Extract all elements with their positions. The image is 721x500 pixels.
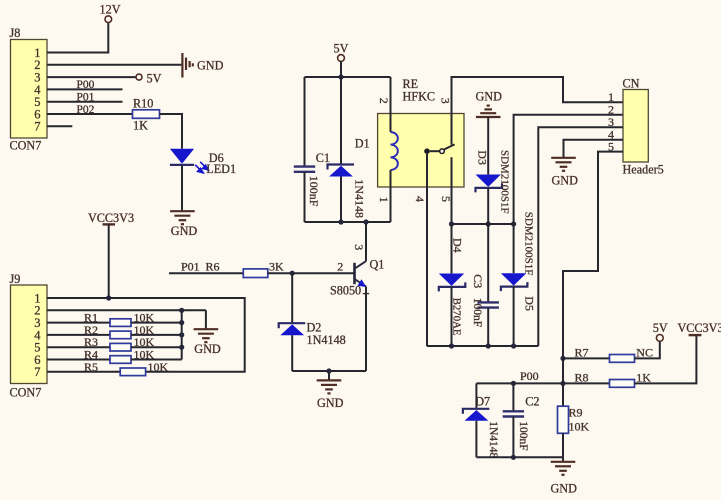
diode D7 [463,409,490,421]
svg-text:R10: R10 [133,96,153,110]
resistor R6 [243,269,267,278]
diode D4 [439,274,466,292]
resistor R7 [610,355,635,363]
svg-text:Q1: Q1 [370,257,385,271]
junction D5 bottom [511,343,516,348]
svg-text:C1: C1 [316,151,330,165]
wire D2 anode down [291,335,293,371]
diode D5 [501,273,528,291]
connector J8 [11,40,48,139]
capacitor C2 [503,411,524,416]
wire vertical to R9 [562,358,564,406]
svg-text:D3: D3 [475,150,489,165]
svg-text:P00: P00 [520,369,539,383]
wire CN pin3 to bottom rail [538,127,623,346]
wire relay pin3 to CN pin1 [452,77,624,145]
resistor R2 [110,331,131,339]
junction pull rail y=347.2 [179,345,184,350]
wire net P01 to R6 [169,272,243,274]
relay switch lever [444,144,454,149]
svg-text:P01: P01 [77,92,95,104]
wire C1 bottom lead [304,172,306,222]
resistor R4 [110,356,131,364]
svg-text:1N4148: 1N4148 [307,333,346,347]
svg-text:P00: P00 [77,79,95,91]
svg-text:J9: J9 [10,272,21,286]
junction D3/C3 [486,221,491,226]
svg-text:3: 3 [352,244,366,250]
S8050 underscore mark [363,293,369,295]
wire J9 pin2 to GND [47,309,206,311]
power port 5V (J8 pin3) [136,74,142,80]
wire rail to C3 [487,224,489,302]
wire bottom wire C1/D1/Q1/relay pin1 [305,221,391,223]
resistor R5 [120,368,145,376]
wire J8 pin2 to GND [47,64,181,66]
wire P00 to D7 [475,383,477,408]
svg-text:R5: R5 [84,360,98,374]
junction R8/R9 [560,381,565,386]
wire J9 to R1 [47,322,110,324]
svg-text:CON7: CON7 [10,139,42,153]
svg-text:R6: R6 [206,260,220,274]
wire GND stem (Q1) [328,371,330,380]
wire net P00 horizontal [476,382,563,384]
wire relay pin2 lead [390,77,392,132]
power port VCC3V3 (left) [103,223,116,225]
svg-text:GND: GND [317,396,344,410]
junction C2 top [511,381,516,386]
wire net stub P00 (J8 pin4) [47,88,123,90]
wire Q1 collector up [365,222,367,261]
ground GND (J9 pin2) [194,329,219,342]
wire C2 top lead [512,383,514,411]
wire 5V stem [340,61,342,77]
wire junction to R7 [563,357,610,359]
svg-text:P01: P01 [181,260,200,274]
resistor R8 [610,380,635,388]
junction relay pin5/D4 [449,221,454,226]
wire net stub P01 (J8 pin5) [47,101,123,103]
wire D1 cathode lead [340,77,342,164]
wire J9 to R4 [47,359,110,361]
svg-text:D5: D5 [523,296,537,311]
relay coil [391,132,398,170]
svg-text:J8: J8 [10,26,21,40]
svg-text:10K: 10K [148,360,169,374]
ground GND (below Q1) [317,380,342,393]
LED D6 [170,149,194,165]
wire relay pin1 lead [390,170,392,222]
svg-text:R7: R7 [575,346,589,360]
ground GND (above D3, inverted) [476,106,501,117]
svg-text:Header5: Header5 [623,162,664,176]
wire D7 anode down [475,421,477,458]
junction base/D2 [290,271,295,276]
svg-text:VCC3V3: VCC3V3 [88,211,134,225]
wire R4 to pull rail [131,359,182,361]
diode D3 [476,175,503,193]
svg-text:CN: CN [623,76,640,90]
junction 5V rail [338,74,343,79]
wire D6 cathode to GND [181,166,183,211]
svg-text:SDM2100S1F: SDM2100S1F [523,212,535,276]
wire relay pin5 down (NC contact) [451,157,453,224]
wire J8 pin1 to 12V [47,23,108,53]
svg-text:P02: P02 [77,104,95,116]
junction GND tap (Q1) [326,368,331,373]
wire R8 to VCC3V3 [635,336,697,384]
wire C3 to bottom rail [487,308,489,346]
wire R7 to 5V [635,341,660,358]
svg-text:D7: D7 [475,395,490,409]
wire J9 to R3 [47,346,110,348]
wire J8 pin3 to 5V [47,76,136,78]
svg-text:C3: C3 [471,274,485,288]
transistor Q1 [355,261,367,286]
junction R7 [560,356,565,361]
wire R10 to LED D6 [160,114,183,149]
wire bottom GND rail (right) [476,456,563,458]
junction D4 bottom [449,343,454,348]
wire D3 to top rail [487,188,489,224]
capacitor C3 [478,302,499,307]
svg-text:LED1: LED1 [206,162,236,176]
connector CN [623,90,648,163]
relay RE HFKC body [378,114,464,188]
svg-text:GND: GND [476,89,503,103]
ground GND (CN pin4) [551,158,576,171]
junction VCC3V3 / J9 pin1 [106,295,111,300]
power port VCC3V3 (right) [689,334,702,336]
resistor R10 [133,110,160,119]
wire GND to D3 [487,117,489,174]
power port 5V (top) [338,55,345,62]
relay switch wire to pole [430,150,440,152]
resistor R9 (vertical) [558,406,569,433]
wire CN pin4 to GND [564,140,624,158]
wire D5 to bottom rail [513,287,515,347]
wire C2 bottom lead [512,417,514,458]
wire J9 pin7 to R5 [47,371,120,373]
wire GND stem (bottom right) [562,457,564,461]
svg-text:HFKC: HFKC [403,90,436,104]
svg-text:5V: 5V [334,41,349,55]
svg-text:GND: GND [197,58,224,72]
svg-text:CON7: CON7 [10,386,42,400]
svg-text:12V: 12V [100,3,121,17]
wire R6 to Q1 base [268,272,355,274]
wire GND drop (J9 pin2) [205,310,207,328]
wire bottom schottky rail [427,345,539,347]
resistor R1 [110,319,131,327]
svg-text:2: 2 [337,259,343,273]
wire R3 to pull rail [131,346,182,348]
wire VCC3V3 to J9 pin1 [108,224,110,298]
junction pull rail y=322.6 [179,320,184,325]
svg-text:VCC3V3: VCC3V3 [678,321,721,335]
wire emitter/D2 bottom wire [292,370,366,372]
ground GND (bottom right) [551,462,576,475]
transistor Q1 emitter arrow [357,279,366,287]
wire junction to D2 cathode [291,273,293,322]
wire J9 to R2 [47,334,110,336]
diode D2 [279,323,306,335]
svg-text:R9: R9 [569,406,583,420]
ground GND (below D6) [170,211,195,224]
wire pull rail vertical [181,310,183,359]
svg-text:GND: GND [194,342,221,356]
svg-text:1N4148: 1N4148 [352,179,366,218]
svg-text:SDM2100S1F: SDM2100S1F [498,150,510,214]
wire D4 to bottom rail [451,286,453,346]
wire rail to D4 [451,224,453,273]
junction pull rail y=334.9 [179,332,184,337]
wire top schottky rail [452,223,514,225]
wire C1 top lead [304,77,306,166]
svg-text:3K: 3K [269,260,284,274]
resistor R3 [110,343,131,351]
connector J9 [11,285,48,384]
wire D1 anode lead [340,177,342,223]
LED D6 emission arrows [195,162,208,173]
junction Q1 collector [363,219,368,224]
diode D1 [328,165,355,177]
wire J8 pin7 stub [47,125,72,127]
relay switch common contact [424,148,430,154]
wire R2 to pull rail [131,334,182,336]
svg-text:5V: 5V [147,71,162,85]
power port 12V [105,16,112,23]
svg-text:7: 7 [34,365,40,379]
wire R9 to bottom rail [562,433,564,457]
svg-text:2: 2 [377,98,391,104]
svg-text:7: 7 [34,120,40,134]
svg-text:1K: 1K [133,118,148,132]
svg-text:4: 4 [413,196,427,202]
svg-text:GND: GND [552,173,579,187]
wire 5V rail [305,76,391,78]
junction D5 rail [511,221,516,226]
svg-text:5V: 5V [653,321,668,335]
svg-text:D1: D1 [355,136,370,150]
svg-text:100nF: 100nF [471,298,483,327]
wire relay pin4 down to bottom rail [426,154,428,346]
capacitor C1 [294,167,315,172]
relay switch pole circle [440,149,445,154]
svg-text:GND: GND [171,224,198,238]
svg-text:1: 1 [377,197,391,203]
wire junction to R8 [563,382,610,384]
wire CN pin2 to D5 [514,115,623,273]
svg-text:10K: 10K [569,420,590,434]
ground GND (J8 pin2, sideways bars) [182,53,192,78]
wire J9 pin1 / VCC rail to R5 [47,298,245,372]
svg-text:100nF: 100nF [307,176,321,207]
wire Q1 emitter down [365,287,367,371]
wire J8 pin6 to R10 [47,113,133,115]
junction C2 bottom [511,455,516,460]
junction D1 bottom [338,219,343,224]
svg-text:C2: C2 [525,395,539,409]
wire R1 to pull rail [131,322,182,324]
junction C3 bottom [486,343,491,348]
svg-text:GND: GND [551,482,578,496]
svg-text:R8: R8 [575,371,589,385]
svg-text:1N4148: 1N4148 [487,421,499,458]
power port 5V (bottom right) [656,335,663,342]
svg-text:D4: D4 [451,238,465,253]
wire CN pin5 route down [563,152,623,359]
svg-text:S8050: S8050 [330,283,361,297]
svg-text:100nF: 100nF [517,421,529,450]
junction pull rail y=310.3 [179,308,184,313]
